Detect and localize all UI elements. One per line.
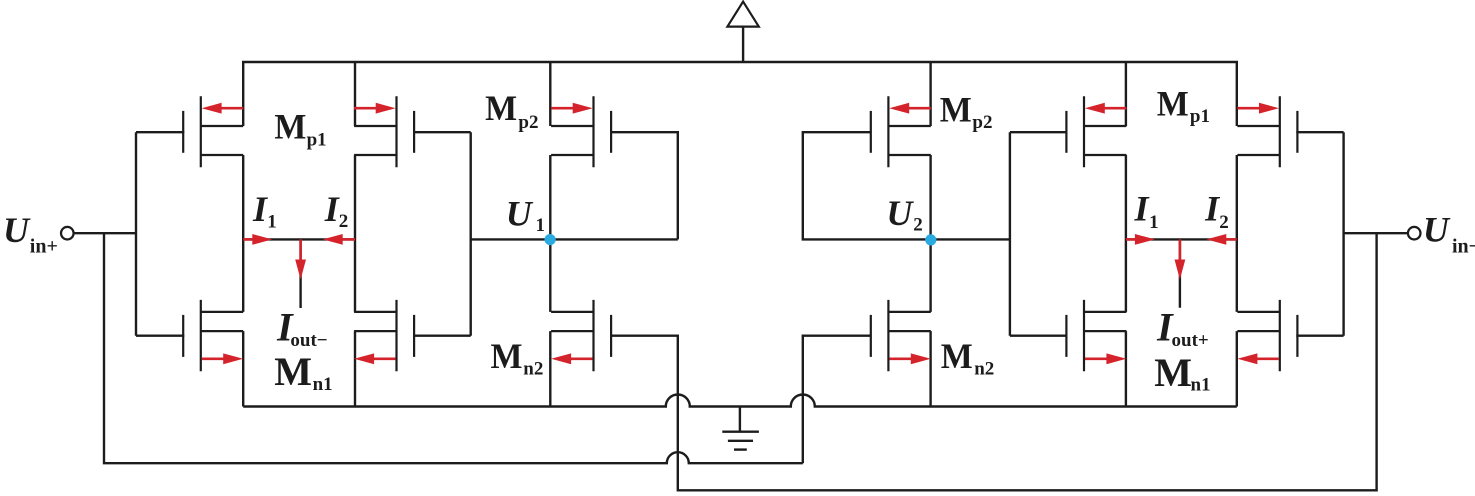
svg-text:n1: n1 xyxy=(1191,374,1211,395)
svg-text:p2: p2 xyxy=(518,112,538,133)
label I2 left xyxy=(324,189,349,232)
label Mn1 right xyxy=(1154,350,1210,395)
current arrow I2 right xyxy=(1206,234,1237,245)
svg-text:n1: n1 xyxy=(313,374,333,395)
wire gate lead Mn1 left xyxy=(136,335,184,337)
label Iout- left xyxy=(276,305,328,351)
wire gate lead Mn5 xyxy=(1010,335,1066,337)
current arrow Iout- down xyxy=(295,239,306,279)
transistor Mp1 outer-left PMOS xyxy=(183,96,243,167)
wire ground rail with crossover hops xyxy=(243,395,1237,407)
label Mp2 right xyxy=(940,89,993,133)
svg-text:M: M xyxy=(491,336,523,376)
wire gate lead Mn4 down to crossover from Uin+ xyxy=(803,336,871,464)
svg-text:1: 1 xyxy=(1149,212,1159,233)
svg-text:n2: n2 xyxy=(523,359,543,380)
wire column c2 xyxy=(354,62,356,407)
wire column c4 xyxy=(929,62,931,407)
transistor Mn1 inner-right NMOS xyxy=(1066,300,1126,371)
wire column c6 xyxy=(1236,155,1238,407)
wire Iout+ stub xyxy=(1179,239,1181,307)
svg-text:out−: out− xyxy=(290,330,327,351)
label I2 right xyxy=(1204,189,1229,233)
wire node U1 xyxy=(471,238,678,240)
svg-text:M: M xyxy=(941,336,973,376)
wire Uin+ to input column xyxy=(74,232,136,234)
wire left input gate column xyxy=(135,132,137,336)
transistor Mn2 center-left NMOS (mirrored) xyxy=(551,300,611,371)
transistor Mp2 center-right PMOS xyxy=(871,96,931,167)
svg-text:2: 2 xyxy=(913,215,923,236)
label Mn2 right xyxy=(941,336,995,380)
svg-text:1: 1 xyxy=(267,211,277,232)
wire left I-bar node xyxy=(243,238,355,240)
wire VDD top rail xyxy=(243,62,1237,126)
wire column c5 xyxy=(1125,62,1127,407)
svg-text:in−: in− xyxy=(1452,236,1475,258)
wire gate lead Mp2 left xyxy=(415,131,471,133)
current arrow I1 right xyxy=(1126,234,1155,245)
svg-text:p1: p1 xyxy=(307,129,327,150)
svg-text:n2: n2 xyxy=(974,359,994,380)
label Uin+ xyxy=(3,210,58,258)
wire gate tie column g1 (Mp2/Mn2 gates to U1) xyxy=(470,132,472,336)
wire gate lead Mp5 xyxy=(1010,131,1066,133)
label I1 left xyxy=(252,189,277,232)
wire column c3 xyxy=(549,62,551,407)
wire Iout- stub xyxy=(299,239,301,308)
wire gate lead Mn6 right xyxy=(1296,335,1343,337)
svg-text:M: M xyxy=(485,88,517,128)
wire gate tie column g4 (Mp5/Mn5 gates to U2) xyxy=(1009,132,1011,336)
wire Uin- to input column xyxy=(1344,232,1408,234)
terminal Uin+ xyxy=(61,227,74,240)
power supply symbol xyxy=(727,2,758,62)
transistor Mp2 center-left PMOS (mirrored) xyxy=(551,96,611,167)
ground xyxy=(722,407,759,450)
terminal Uin- xyxy=(1408,227,1421,240)
svg-text:2: 2 xyxy=(339,211,349,232)
wire right I-bar node xyxy=(1126,238,1237,240)
wire gate lead Mp4 to U2 xyxy=(803,132,1010,239)
node U2 dot xyxy=(925,234,936,245)
current arrow Iout+ down xyxy=(1175,239,1186,279)
svg-text:out+: out+ xyxy=(1172,330,1209,351)
transistor Mn1 outer-right NMOS (mirrored) xyxy=(1237,300,1297,371)
svg-text:M: M xyxy=(274,349,312,394)
wire Uin+ crossover to right NMOS gates xyxy=(104,233,803,463)
svg-text:U: U xyxy=(3,210,31,250)
transistor Mn2 center-right NMOS xyxy=(871,300,931,371)
label Mp2 left xyxy=(485,88,538,133)
current arrow I1 left xyxy=(243,234,272,245)
current arrow I2 left xyxy=(323,234,355,245)
svg-text:U: U xyxy=(506,193,534,233)
node U1 dot xyxy=(545,234,556,245)
transistor Mp1 inner-right PMOS xyxy=(1066,96,1126,167)
label Iout+ right xyxy=(1156,305,1209,352)
svg-text:M: M xyxy=(274,106,306,146)
svg-text:I: I xyxy=(1134,189,1151,229)
svg-text:M: M xyxy=(1157,83,1189,123)
transistor Mp1 outer-right PMOS (mirrored) xyxy=(1237,96,1297,167)
svg-text:p1: p1 xyxy=(1190,106,1210,127)
wire gate lead Mn3 down to bottom rail from Uin- xyxy=(611,233,1376,490)
label U2 xyxy=(886,193,922,236)
wire gate lead Mp1 left xyxy=(136,131,184,133)
label U1 xyxy=(506,193,545,236)
svg-text:2: 2 xyxy=(1219,212,1229,233)
label Mp1 right xyxy=(1157,83,1210,127)
label Mn1 left xyxy=(274,349,332,395)
svg-text:M: M xyxy=(940,89,972,129)
transistor Mn1 outer-left NMOS xyxy=(183,300,243,371)
wire gate lead Mp3 to U1 xyxy=(611,132,678,239)
wire right input gate column xyxy=(1342,132,1344,336)
label Mn2 left xyxy=(491,336,544,380)
svg-text:U: U xyxy=(886,193,914,233)
label I1 right xyxy=(1134,189,1159,233)
svg-text:in+: in+ xyxy=(30,236,58,258)
label Mp1 left xyxy=(274,106,326,150)
transistor Mn1 inner-left NMOS (mirrored) xyxy=(354,300,414,371)
transistor Mp1 inner-left PMOS (mirrored) xyxy=(354,96,414,167)
wire gate lead Mn2 left xyxy=(415,335,471,337)
svg-text:M: M xyxy=(1154,350,1192,395)
svg-text:p2: p2 xyxy=(972,112,992,133)
svg-text:1: 1 xyxy=(536,215,546,236)
wire column c1 drain bus xyxy=(242,155,244,407)
label Uin- xyxy=(1423,210,1475,258)
wire gate lead Mp6 right xyxy=(1296,131,1343,133)
svg-text:U: U xyxy=(1423,210,1451,250)
